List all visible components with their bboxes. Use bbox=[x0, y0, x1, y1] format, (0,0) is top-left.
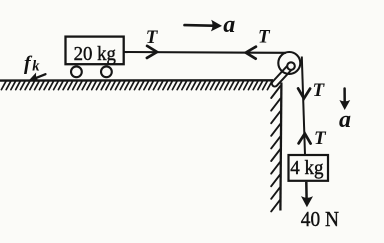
wall (vertical surface) bbox=[280, 83, 281, 211]
svg-text:T: T bbox=[146, 27, 159, 48]
tension arrowhead T downward on rope bbox=[298, 88, 310, 98]
cart body (20 kg block) bbox=[66, 37, 124, 65]
acceleration arrow a (top) bbox=[185, 24, 213, 27]
pulley axle bbox=[287, 62, 295, 70]
tension arrowhead T upward on rope bbox=[299, 134, 311, 144]
pulley wheel bbox=[278, 52, 300, 74]
cart wheel right bbox=[101, 66, 112, 77]
horizontal rope (cart to pulley) bbox=[125, 51, 287, 54]
acceleration arrow a (downward, right side) bbox=[343, 89, 346, 103]
svg-text:T: T bbox=[258, 27, 271, 48]
svg-text:4 kg: 4 kg bbox=[290, 157, 323, 179]
4 kg block bbox=[289, 155, 329, 181]
tension arrowhead T near cart (points right) bbox=[147, 46, 157, 58]
friction arrow f_k bbox=[31, 74, 46, 80]
cart wheel left bbox=[71, 66, 82, 77]
svg-text:T: T bbox=[314, 128, 327, 149]
svg-text:20 kg: 20 kg bbox=[74, 43, 116, 65]
ground surface (table top) bbox=[0, 79, 273, 82]
weight arrow 40 N bbox=[305, 182, 308, 199]
svg-text:40 N: 40 N bbox=[301, 207, 339, 231]
pulley bracket bbox=[275, 67, 290, 84]
svg-text:a: a bbox=[339, 107, 351, 133]
svg-text:k: k bbox=[32, 58, 40, 74]
vertical rope (pulley to 4 kg block) bbox=[302, 57, 305, 155]
ground hatching bbox=[1, 81, 272, 89]
svg-text:T: T bbox=[313, 80, 326, 101]
tension arrowhead T near pulley (points left) bbox=[246, 47, 256, 59]
svg-text:a: a bbox=[223, 12, 235, 38]
wall hatching bbox=[271, 86, 280, 211]
